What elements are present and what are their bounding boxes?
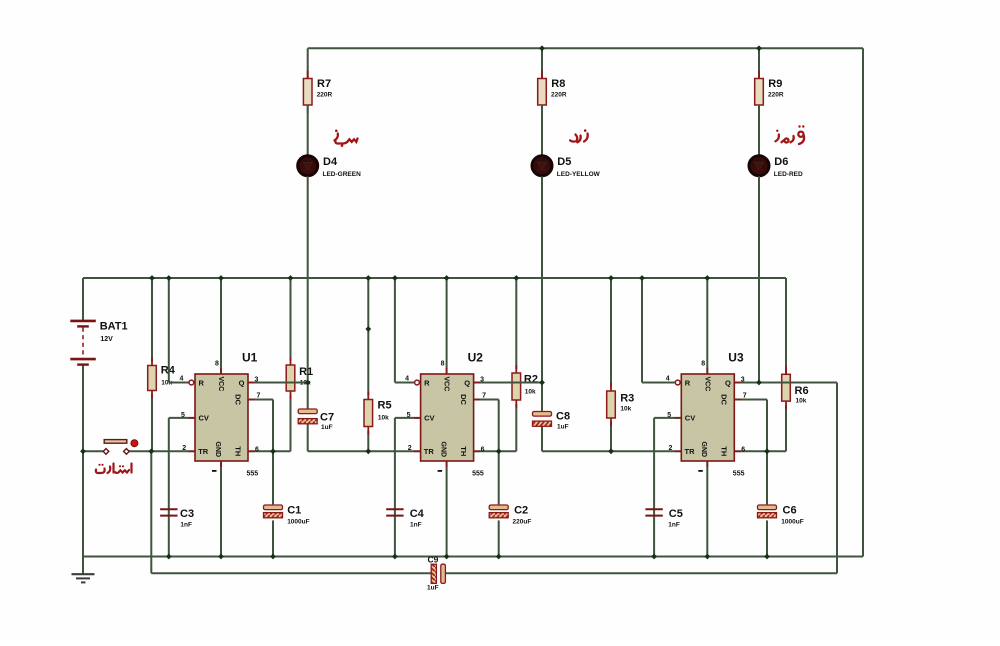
svg-text:1uF: 1uF <box>557 424 569 431</box>
svg-text:12V: 12V <box>100 336 113 343</box>
svg-text:4: 4 <box>666 376 670 383</box>
wire Q output <box>248 382 308 384</box>
capacitor C9 <box>431 564 445 583</box>
svg-text:C1: C1 <box>287 505 301 517</box>
wire CV to C3 <box>168 418 170 515</box>
svg-text:CV: CV <box>685 414 695 423</box>
node on ground rail <box>392 554 398 560</box>
svg-text:10k: 10k <box>378 415 389 422</box>
svg-text:C3: C3 <box>180 508 194 520</box>
wire Q to C7 <box>307 383 309 410</box>
wire rail to R7 <box>307 48 309 78</box>
node on ground rail <box>166 554 172 560</box>
svg-text:10k: 10k <box>525 389 536 396</box>
node on Q output <box>756 380 762 386</box>
node on ground rail <box>218 554 224 560</box>
wire DC to C6 to ground <box>766 400 768 557</box>
resistor R1 <box>286 357 295 399</box>
svg-text:220R: 220R <box>768 92 784 99</box>
svg-text:220R: 220R <box>317 92 333 99</box>
led D4 <box>298 156 318 176</box>
svg-text:U3: U3 <box>728 351 744 365</box>
resistor R5 <box>364 392 373 435</box>
wire Q output <box>474 382 542 384</box>
node battery rail / TR row <box>80 448 86 454</box>
svg-text:LED-RED: LED-RED <box>774 171 803 178</box>
resistor R7 <box>303 71 312 114</box>
node on TR/TH row <box>270 448 276 454</box>
svg-text:R8: R8 <box>551 78 565 90</box>
net label GREEN (Persian sabz) <box>335 134 358 144</box>
node on V+ rail <box>513 275 519 281</box>
svg-text:1uF: 1uF <box>427 585 439 592</box>
node on ground rail <box>496 554 502 560</box>
wire TR1 to C9 <box>150 451 152 573</box>
wire rail to R2 <box>515 278 517 369</box>
capacitor C1 plates <box>264 505 283 518</box>
wire reset to R pin <box>169 382 189 384</box>
node on ground rail <box>704 554 710 560</box>
wire C3 to ground <box>168 515 170 556</box>
wire C8 down <box>541 426 543 451</box>
pushbutton START <box>103 440 138 455</box>
svg-text:DC: DC <box>720 394 729 405</box>
svg-text:1000uF: 1000uF <box>287 519 309 526</box>
resistor R3 <box>607 383 616 426</box>
label START (Persian) <box>96 464 132 474</box>
capacitor C4 <box>386 509 403 515</box>
wire VCC <box>220 278 222 374</box>
node on V+ rail <box>392 275 398 281</box>
svg-text:3: 3 <box>741 377 745 384</box>
wire rail to R8 <box>541 48 543 78</box>
wire button to U1 TR <box>129 450 195 452</box>
node on top rail <box>756 45 762 51</box>
svg-text:R: R <box>424 379 430 388</box>
node on TR/TH row <box>608 448 614 454</box>
wire R3 to TR row <box>610 422 612 451</box>
wire GND <box>706 461 708 557</box>
svg-text:220uF: 220uF <box>513 519 532 526</box>
node on ground rail <box>270 554 276 560</box>
svg-text:3: 3 <box>480 377 484 384</box>
svg-text:DC: DC <box>459 394 468 405</box>
wire TH row <box>734 450 786 452</box>
node on V+ rail <box>444 275 450 281</box>
wire C4 to ground <box>394 515 396 556</box>
node on V+ rail <box>639 275 645 281</box>
node R5 branch <box>365 326 371 332</box>
led D5 <box>532 156 552 176</box>
op-amp timer U3 555 <box>675 368 741 467</box>
svg-text:4: 4 <box>180 376 184 383</box>
svg-text:TR: TR <box>685 447 696 456</box>
svg-text:R2: R2 <box>524 374 538 386</box>
svg-text:10k: 10k <box>796 398 807 405</box>
wire rail to R3 <box>610 278 612 387</box>
wire C9 left <box>151 572 431 574</box>
resistor R2 <box>512 365 521 408</box>
node on V+ rail <box>288 275 294 281</box>
node on V+ rail <box>608 275 614 281</box>
wire GND <box>220 461 222 557</box>
node on V+ rail <box>149 275 155 281</box>
resistor R9 <box>755 71 764 114</box>
svg-text:1000uF: 1000uF <box>781 519 803 526</box>
wire V+ power rail <box>83 277 786 279</box>
svg-text:VCC: VCC <box>217 377 224 392</box>
wire rail to R4 <box>151 278 153 362</box>
svg-text:2: 2 <box>408 445 412 452</box>
op-amp timer U1 555 <box>189 368 255 467</box>
svg-text:7: 7 <box>482 393 486 400</box>
wire TH row <box>248 450 291 452</box>
svg-text:5: 5 <box>407 412 411 419</box>
svg-text:8: 8 <box>215 361 219 368</box>
wire DC to C2 to ground <box>498 400 500 557</box>
node on V+ rail <box>704 275 710 281</box>
capacitor C5 <box>645 509 662 515</box>
svg-text:6: 6 <box>255 447 259 454</box>
svg-text:TR: TR <box>198 447 209 456</box>
svg-text:TH: TH <box>459 446 468 456</box>
svg-text:R9: R9 <box>768 78 782 90</box>
svg-text:5: 5 <box>181 412 185 419</box>
wire R5 to TR row <box>367 431 369 452</box>
node on TR/TH row <box>496 448 502 454</box>
svg-text:C4: C4 <box>410 508 425 520</box>
wire GND <box>446 461 448 557</box>
net label RED (Persian qermez) <box>776 132 805 144</box>
wire R4 to TR row <box>151 395 153 452</box>
svg-text:4: 4 <box>405 376 409 383</box>
resistor R4 <box>148 358 157 399</box>
wire right edge <box>862 48 864 556</box>
wire reset to R pin <box>642 382 675 384</box>
wire R9 to D6 <box>758 105 760 155</box>
wire C8 to next TR <box>542 450 681 452</box>
wire rail to R1 <box>290 278 292 361</box>
capacitor C2 plates <box>489 505 508 518</box>
wire DC pin <box>474 399 499 401</box>
svg-text:GND: GND <box>214 442 221 458</box>
op-amp timer U2 555 <box>414 368 480 467</box>
wire CV <box>169 417 195 419</box>
node on V+ rail <box>365 275 371 281</box>
node on TR/TH row <box>764 448 770 454</box>
wire battery top <box>82 278 84 321</box>
svg-text:Q: Q <box>239 379 245 388</box>
svg-text:R5: R5 <box>378 400 392 412</box>
capacitor C6 plates <box>758 505 777 518</box>
node on TR/TH row <box>148 448 154 454</box>
svg-text:C2: C2 <box>514 505 528 517</box>
svg-text:555: 555 <box>472 471 484 478</box>
svg-text:GND: GND <box>700 442 707 458</box>
capacitor C2 <box>489 504 508 520</box>
wire DC pin <box>734 399 767 401</box>
node on ground rail <box>764 554 770 560</box>
svg-text:555: 555 <box>247 471 259 478</box>
wire rail to reset <box>641 278 643 383</box>
svg-text:D4: D4 <box>323 156 338 168</box>
pin numbers U2 <box>405 361 486 478</box>
node on V+ rail <box>166 275 172 281</box>
wire VCC <box>446 278 448 374</box>
pin numbers U1 <box>180 361 261 478</box>
svg-text:TH: TH <box>233 446 242 456</box>
svg-text:7: 7 <box>257 393 261 400</box>
svg-text:TH: TH <box>720 446 729 456</box>
svg-text:R7: R7 <box>317 78 331 90</box>
wire rail to reset <box>394 278 396 383</box>
svg-text:C7: C7 <box>320 412 334 424</box>
svg-text:C6: C6 <box>783 505 797 517</box>
svg-text:CV: CV <box>424 414 434 423</box>
svg-text:1nF: 1nF <box>180 522 192 529</box>
wire C5 to ground <box>653 515 655 556</box>
wire R7 to D4 <box>307 105 309 155</box>
svg-text:555: 555 <box>733 471 745 478</box>
svg-text:C5: C5 <box>669 508 683 520</box>
wire R2 to TH row <box>515 404 517 451</box>
wire Q to C8 <box>541 383 543 412</box>
svg-text:C8: C8 <box>556 411 570 423</box>
net label YELLOW (Persian zard) <box>570 134 588 143</box>
svg-text:6: 6 <box>481 447 485 454</box>
svg-text:Q: Q <box>725 379 731 388</box>
battery BAT1 <box>70 321 96 365</box>
svg-text:VCC: VCC <box>443 377 450 392</box>
wire top LED return rail <box>308 47 863 49</box>
node on ground rail <box>444 554 450 560</box>
svg-text:220R: 220R <box>551 92 567 99</box>
svg-text:Q: Q <box>464 379 470 388</box>
wire rail to R9 <box>758 48 760 78</box>
capacitor C8 <box>533 412 552 427</box>
svg-text:BAT1: BAT1 <box>100 321 128 333</box>
svg-text:3: 3 <box>255 377 259 384</box>
pin numbers U3 <box>666 361 747 478</box>
svg-text:TR: TR <box>424 447 435 456</box>
led D6 <box>749 156 769 176</box>
resistor R6 <box>782 366 791 409</box>
wire TH row <box>474 450 517 452</box>
wire R6 to TH row <box>785 405 787 451</box>
wire rail to R5 <box>367 278 369 396</box>
wire rail to button <box>83 450 103 452</box>
capacitor C3 <box>160 509 177 515</box>
wire VCC <box>706 278 708 374</box>
node on Q output <box>539 380 545 386</box>
svg-text:CV: CV <box>199 414 209 423</box>
wire feedback riser <box>836 383 838 574</box>
svg-text:2: 2 <box>669 445 673 452</box>
capacitor C6 <box>758 504 777 520</box>
svg-text:1uF: 1uF <box>321 424 333 431</box>
svg-text:5: 5 <box>667 412 671 419</box>
svg-text:C9: C9 <box>428 555 439 565</box>
wire D6 to Q node <box>758 176 760 382</box>
wire R8 to D5 <box>541 105 543 155</box>
svg-text:D6: D6 <box>774 156 788 168</box>
wire CV to C4 <box>394 418 396 515</box>
svg-text:1nF: 1nF <box>410 522 422 529</box>
wire battery bottom <box>82 365 84 557</box>
wire rail to R6 <box>785 278 787 374</box>
node on TR/TH row <box>365 448 371 454</box>
wire C7 down <box>307 424 309 452</box>
wire CV <box>654 417 681 419</box>
svg-text:R1: R1 <box>299 366 313 378</box>
wire D5 to Q node <box>541 176 543 382</box>
node on V+ rail <box>218 275 224 281</box>
wire D4 to Q node <box>307 176 309 382</box>
svg-text:2: 2 <box>182 445 186 452</box>
wire rail to reset <box>168 278 170 383</box>
wire C7 to next TR <box>308 450 421 452</box>
svg-text:VCC: VCC <box>703 377 710 392</box>
node on ground rail <box>651 554 657 560</box>
svg-text:8: 8 <box>441 361 445 368</box>
svg-text:R3: R3 <box>620 393 634 405</box>
node on Q output <box>305 380 311 386</box>
wire CV to C5 <box>653 418 655 515</box>
svg-text:DC: DC <box>233 394 242 405</box>
capacitor C7 <box>298 409 317 424</box>
ground <box>72 557 95 583</box>
svg-text:D5: D5 <box>557 156 571 168</box>
svg-text:R6: R6 <box>795 385 809 397</box>
svg-text:R: R <box>199 379 205 388</box>
wire DC pin <box>248 399 273 401</box>
svg-text:6: 6 <box>741 447 745 454</box>
svg-text:GND: GND <box>439 442 446 458</box>
wire C9 right <box>445 572 837 574</box>
wire DC to C1 to ground <box>272 400 274 557</box>
svg-text:1nF: 1nF <box>668 522 680 529</box>
svg-text:R: R <box>685 379 691 388</box>
wire Q output <box>734 382 837 384</box>
svg-text:U1: U1 <box>242 351 258 365</box>
svg-text:U2: U2 <box>468 351 484 365</box>
svg-text:10k: 10k <box>620 406 631 413</box>
node on top rail <box>539 45 545 51</box>
svg-text:8: 8 <box>701 361 705 368</box>
wire CV <box>395 417 421 419</box>
capacitor C1 <box>264 504 283 520</box>
svg-text:LED-GREEN: LED-GREEN <box>323 171 362 178</box>
resistor R8 <box>538 71 547 114</box>
wire R1 to TH row <box>290 395 292 451</box>
wire ground rail <box>83 556 863 558</box>
svg-text:7: 7 <box>743 393 747 400</box>
svg-text:LED-YELLOW: LED-YELLOW <box>557 171 601 178</box>
wire reset to R pin <box>395 382 414 384</box>
